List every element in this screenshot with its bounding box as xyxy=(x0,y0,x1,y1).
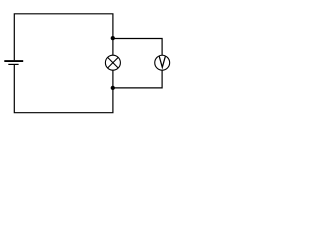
wire top loop (battery + up, across top, down to lamp) xyxy=(14,14,113,60)
wire voltmeter bottom branch xyxy=(113,70,162,88)
battery cell B1 xyxy=(4,61,23,64)
wire voltmeter top branch xyxy=(113,39,162,56)
lamp L1 xyxy=(105,55,120,70)
node junction top xyxy=(111,36,115,40)
wire bottom loop (battery - down, across bottom, up to lamp) xyxy=(14,65,113,113)
voltmeter V1 xyxy=(155,55,170,70)
node junction bottom xyxy=(111,86,115,90)
